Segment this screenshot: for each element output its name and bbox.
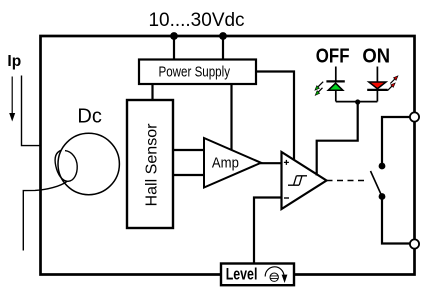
wire hall sensor to amp (upper) — [173, 149, 206, 151]
switch lever — [371, 171, 383, 197]
op-amp Amp — [204, 138, 261, 188]
wire switch to bottom terminal — [382, 197, 410, 244]
dashed control line comparator to switch — [327, 180, 368, 182]
svg-text:10....30Vdc: 10....30Vdc — [148, 10, 244, 31]
LED D1 green (OFF) — [335, 67, 337, 81]
wire power supply to comparator — [256, 72, 294, 163]
primary turn loop through core — [55, 150, 77, 181]
toroid core circle — [58, 133, 119, 194]
wire hall sensor to amp (lower) — [173, 174, 206, 176]
level box with trimmer — [221, 264, 294, 286]
outer frame (supply rails / enclosure) — [41, 36, 415, 275]
LED D2 red (ON) — [376, 67, 378, 83]
svg-text:Power Supply: Power Supply — [159, 64, 231, 80]
wire power supply to hall sensor — [151, 84, 153, 100]
wire primary conductor in — [22, 76, 42, 146]
svg-text:Ip: Ip — [7, 53, 21, 70]
hysteresis symbol — [288, 176, 307, 185]
arrow Ip current direction — [11, 77, 13, 115]
node junction dot right on top rail — [219, 32, 227, 40]
node junction dot left on top rail — [170, 32, 178, 40]
output terminal bottom — [410, 239, 419, 248]
svg-text:OFF: OFF — [316, 46, 350, 68]
LED D1 emission arrows — [318, 82, 324, 88]
pin - — [284, 197, 289, 199]
LED D2 emission arrows — [390, 78, 396, 84]
wire top terminal to switch contact — [382, 117, 415, 163]
comparator (schmitt trigger) — [282, 152, 327, 209]
wire top rail to power supply (right) — [222, 36, 224, 60]
power supply box U1 — [139, 60, 256, 85]
node LED junction — [355, 99, 360, 104]
svg-text:ON: ON — [362, 46, 390, 68]
output terminal top — [410, 112, 419, 121]
wire LED cathodes common — [336, 101, 378, 103]
hall sensor box — [127, 100, 173, 228]
wire level box to comparator - input — [254, 198, 282, 264]
svg-text:Level: Level — [226, 265, 258, 284]
wire top rail to power supply (left) — [173, 36, 175, 60]
svg-text:Dc: Dc — [77, 106, 101, 128]
wire amp output to comparator + input — [260, 162, 282, 164]
switch bottom contact — [379, 193, 386, 200]
wire power supply to amp — [230, 84, 232, 150]
wire primary conductor out — [23, 181, 67, 250]
trimmer screw icon — [270, 273, 278, 281]
svg-text:Amp: Amp — [212, 156, 239, 172]
wire LED junction to comparator output side — [317, 102, 358, 176]
switch top contact — [379, 163, 386, 170]
pin + — [284, 160, 289, 165]
svg-text:Hall Sensor: Hall Sensor — [144, 123, 161, 207]
